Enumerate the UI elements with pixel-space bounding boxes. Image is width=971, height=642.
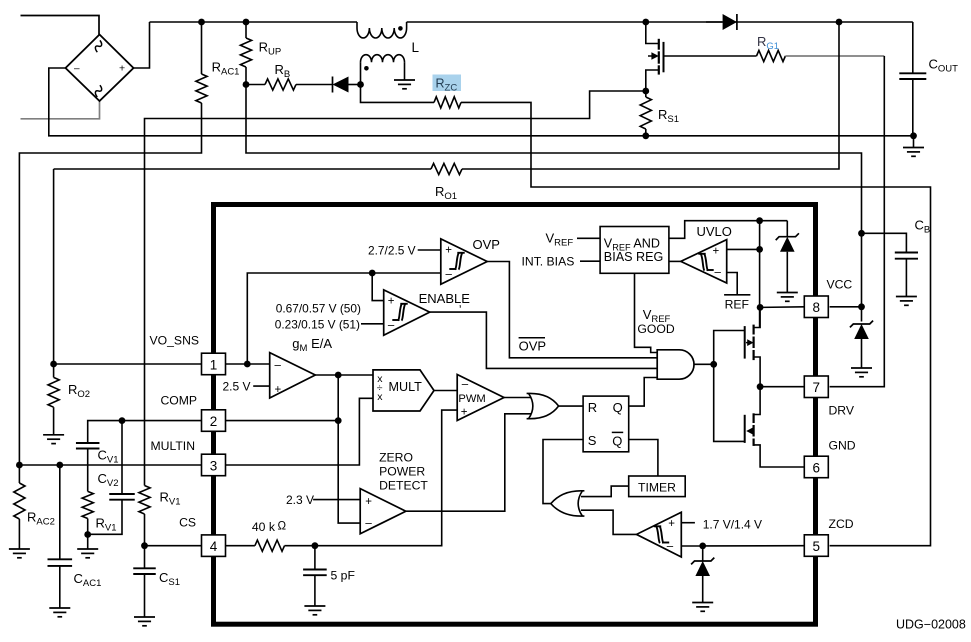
ground (CAC1): [49, 608, 70, 617]
svg-text:2.3 V: 2.3 V: [286, 493, 314, 507]
svg-text:ZCD: ZCD: [829, 517, 854, 531]
IC boundary UCC38050: [214, 205, 816, 625]
svg-text:+: +: [445, 245, 452, 257]
svg-text:TIMER: TIMER: [638, 481, 676, 495]
svg-text:–: –: [715, 267, 722, 279]
label ZCD: [829, 517, 854, 531]
resistor RAC2: [14, 465, 25, 549]
wire pin2 internal: [226, 417, 361, 523]
wire pin3 to MULT: [226, 398, 374, 465]
wire current sense to CS filter: [145, 91, 646, 486]
node RS1 ground: [642, 132, 649, 139]
wire ZCD comp output: [581, 510, 637, 534]
bridge rectifier BR1: [66, 35, 134, 102]
svg-text:–: –: [462, 379, 469, 391]
svg-text:5: 5: [813, 539, 821, 554]
op-amp ZERO POWER DETECT: [360, 489, 406, 534]
label OVP: [473, 237, 500, 252]
label CB: [915, 218, 931, 236]
op-amp OVP comparator: [441, 239, 487, 284]
label VO_SNS: [150, 334, 199, 348]
wire bridge positive output: [134, 22, 150, 68]
svg-text:L: L: [412, 40, 420, 55]
resistor RUP: [240, 22, 251, 85]
node Q1 source / sense: [642, 88, 649, 95]
svg-text:VO_SNS: VO_SNS: [150, 334, 199, 348]
label GND: [829, 439, 856, 453]
label RO2: [68, 382, 90, 400]
wire VREF box to VCC rail: [669, 217, 787, 238]
wire MULTIN line: [16, 462, 202, 469]
wire Q to AND: [629, 378, 658, 407]
svg-text:8: 8: [813, 300, 821, 315]
label L: [412, 40, 420, 55]
label RZC (highlighted): [433, 75, 462, 94]
label COUT: [929, 57, 959, 75]
svg-text:3: 3: [210, 458, 218, 473]
svg-text:UVLO: UVLO: [697, 224, 732, 239]
label RV1a: [96, 516, 117, 534]
transistor lower driver FET: [745, 387, 805, 467]
svg-text:–: –: [388, 320, 395, 332]
ground (D3): [692, 603, 713, 612]
label 40 kOhm: [252, 520, 287, 534]
wire OVP output: [487, 262, 657, 358]
capacitor COUT: [899, 22, 926, 139]
ground (COUT): [903, 136, 924, 157]
wire ZPD output: [406, 414, 531, 511]
label DRV: [829, 404, 855, 418]
capacitor CAC1: [48, 465, 73, 608]
wire UVLO minus to REF: [727, 273, 738, 295]
svg-text:+: +: [461, 407, 468, 419]
svg-text:ZERO: ZERO: [379, 451, 413, 465]
block TIMER: [629, 476, 686, 497]
op-amp ZCD comparator: [637, 512, 682, 557]
label 0.23/0.15 V (51): [275, 318, 384, 332]
ground (CB): [896, 297, 917, 306]
svg-text:1: 1: [210, 357, 218, 372]
wire VREF GOOD: [635, 273, 658, 352]
diode D1: [706, 14, 737, 30]
wire ENABLE output: [430, 312, 658, 368]
label RO1: [435, 184, 457, 202]
label VREF input: [546, 230, 601, 248]
node VCC pin8 external: [830, 303, 865, 310]
ground (RO2): [43, 435, 64, 444]
wire RG1 to DRV (gray): [785, 56, 884, 387]
wire VO_SNS to pin1: [54, 363, 202, 365]
resistor 40k: [255, 540, 285, 551]
wire RO1 to VO_SNS: [53, 169, 55, 364]
wire MULT to PWM: [434, 390, 457, 392]
svg-text:+: +: [668, 518, 675, 530]
op-amp ENABLE comparator: [384, 290, 430, 335]
svg-text:OVP: OVP: [519, 339, 546, 354]
wire VCC supply line: [246, 85, 862, 322]
label MULTIN: [151, 439, 195, 453]
wire internal VCC rail: [756, 221, 763, 327]
wire PWM output: [504, 397, 531, 399]
svg-text:0.23/0.15 V (51): 0.23/0.15 V (51): [275, 318, 360, 332]
svg-text:REF: REF: [725, 298, 749, 312]
svg-text:+: +: [275, 384, 282, 396]
wire VO_SNS to OVP/ENABLE inputs: [247, 270, 440, 364]
resistor RAC1: [19, 22, 207, 465]
svg-text:–: –: [275, 360, 282, 372]
svg-text:–: –: [365, 518, 372, 530]
label gM E/A: [292, 336, 332, 354]
wire pin5 internal: [681, 543, 804, 550]
label UDG-02008: [896, 618, 966, 632]
node VCC internal: [757, 304, 805, 311]
capacitor CS1: [133, 546, 156, 617]
resistor RZC: [434, 97, 461, 108]
capacitor 5pF: [303, 546, 327, 606]
pin 6 GND: [804, 456, 828, 478]
wire RZC to ZCD pin5: [461, 102, 931, 545]
wire bridge negative / ground rail: [49, 68, 914, 136]
label CS: [179, 516, 196, 530]
svg-text:PWM: PWM: [458, 393, 485, 405]
wire TIMER to OR2: [581, 486, 629, 497]
label INT. BIAS: [522, 254, 601, 268]
multiplier MULT: [373, 370, 434, 411]
wire rectified line top rail: [150, 19, 913, 26]
ground (D5): [777, 293, 798, 302]
svg-text:7: 7: [813, 380, 821, 395]
svg-text:ENABLE: ENABLE: [419, 291, 471, 306]
op-amp gM E/A: [270, 353, 316, 398]
capacitor CV2: [88, 421, 135, 535]
gate OR2: [551, 491, 585, 516]
svg-text:0.67/0.57 V (50): 0.67/0.57 V (50): [276, 302, 361, 316]
ground (D4): [851, 368, 872, 377]
svg-text:MULTIN: MULTIN: [151, 439, 195, 453]
wire S input: [543, 440, 583, 504]
wire gate rail: [714, 331, 745, 442]
label 1.7 V/1.4 V: [681, 518, 762, 532]
svg-text:40 k: 40 k: [252, 520, 276, 534]
svg-text:x: x: [377, 391, 383, 403]
wire OR1 output: [559, 405, 584, 407]
label ZERO POWER DETECT: [379, 451, 428, 493]
svg-text:1.7 V/1.4 V: 1.7 V/1.4 V: [703, 518, 762, 532]
pin 1 VO_SNS: [202, 353, 226, 375]
svg-text:+: +: [388, 296, 395, 308]
svg-text:COMP: COMP: [160, 394, 197, 408]
svg-text:GOOD: GOOD: [637, 322, 674, 336]
pin 2 COMP: [202, 410, 226, 432]
zener D3 (ZCD clamp): [691, 546, 714, 603]
resistor RO2: [48, 364, 59, 435]
svg-text:–: –: [446, 269, 453, 281]
inductor L (boost winding): [357, 22, 407, 38]
ground (CS1): [134, 617, 155, 626]
label RAC2: [27, 510, 55, 528]
label ENABLE: [419, 291, 471, 310]
wire pin1 to E/A: [226, 361, 270, 368]
label 2.3 V: [286, 493, 360, 507]
wire CS to PWM+: [285, 410, 458, 549]
resistor RV1a: [82, 491, 93, 534]
wire AND output: [694, 361, 717, 368]
zener D4 (VCC clamp): [850, 321, 873, 368]
resistor RV1b: [139, 486, 150, 546]
svg-text:CS: CS: [179, 516, 196, 530]
label OVP bar: [519, 338, 546, 354]
block VREF AND BIAS REG: [600, 227, 669, 274]
ground (5pF): [304, 606, 325, 615]
gate OR1: [527, 393, 559, 418]
label RUP: [259, 40, 282, 58]
label RS1: [658, 107, 679, 125]
label 2.7/2.5 V: [368, 244, 441, 258]
inductor ZCD winding: [361, 55, 405, 85]
resistor RG1: [757, 50, 786, 61]
wire Qbar to TIMER: [629, 440, 658, 477]
pin 8 VCC: [804, 296, 828, 318]
label RG1: [757, 34, 779, 52]
svg-text:+: +: [365, 496, 372, 508]
svg-text:UDG−02008: UDG−02008: [896, 618, 966, 632]
svg-text:,: ,: [459, 296, 462, 310]
wire COMP pin2 network: [88, 417, 202, 443]
resistor RB: [243, 79, 333, 90]
svg-text:2.5 V: 2.5 V: [223, 380, 251, 394]
ground (compensation): [77, 549, 98, 558]
wire AC line input (bottom, gray): [21, 101, 100, 119]
flip-flop RS latch: [583, 396, 629, 452]
label 2.5 V: [223, 380, 270, 394]
label RAC1: [212, 60, 240, 78]
svg-text:–: –: [74, 64, 80, 75]
capacitor CV1: [76, 443, 100, 491]
resistor RO1: [54, 163, 462, 174]
svg-text:Q: Q: [612, 433, 622, 448]
node CS filter: [141, 542, 201, 549]
label VCC: [827, 278, 853, 292]
label 5 pF: [331, 569, 355, 583]
label RB: [275, 62, 291, 80]
svg-text:2: 2: [210, 414, 218, 429]
capacitor CB: [862, 233, 919, 296]
svg-text:Q: Q: [613, 400, 623, 415]
node VO_SNS: [50, 361, 57, 368]
pin 7 DRV: [804, 376, 828, 398]
svg-text:S: S: [588, 433, 597, 448]
wire VOUT to RO1: [462, 22, 839, 169]
wire pin4 internal: [226, 545, 255, 547]
wire AC line input (top): [21, 16, 100, 35]
transistor Q1 (power MOSFET): [646, 22, 757, 91]
node CB junction: [858, 230, 865, 237]
svg-text:VCC: VCC: [827, 278, 853, 292]
svg-text:DETECT: DETECT: [379, 479, 428, 493]
node compensation ground: [84, 531, 91, 549]
svg-text:OVP: OVP: [473, 237, 500, 252]
svg-text:GND: GND: [829, 439, 856, 453]
ground (ZCD winding): [394, 80, 415, 89]
op-amp UVLO comparator: [681, 240, 727, 283]
label CS1: [159, 570, 180, 588]
svg-text:6: 6: [813, 460, 821, 475]
svg-text:5 pF: 5 pF: [331, 569, 355, 583]
svg-text:Ω: Ω: [278, 521, 287, 533]
op-amp PWM comparator: [457, 375, 504, 421]
transistor upper driver FET: [745, 307, 760, 386]
label CAC1: [74, 571, 102, 589]
diode D2: [333, 77, 361, 93]
label UVLO: [697, 224, 732, 239]
gate AND: [657, 350, 694, 379]
svg-text:MULT: MULT: [389, 380, 423, 394]
node winding-diode junction: [357, 81, 364, 88]
svg-text:+: +: [119, 63, 125, 75]
pin 3 MULTIN: [202, 454, 226, 476]
svg-text:+: +: [713, 246, 720, 258]
terminal REF: [724, 295, 750, 312]
wire UVLO plus: [727, 248, 760, 250]
label COMP: [160, 394, 197, 408]
label RV1b: [160, 490, 181, 508]
svg-text:2.7/2.5 V: 2.7/2.5 V: [368, 244, 416, 258]
svg-text:4: 4: [210, 539, 218, 554]
svg-text:BIAS REG: BIAS REG: [604, 250, 664, 264]
wire winding to RZC: [361, 85, 435, 103]
svg-text:INT. BIAS: INT. BIAS: [522, 254, 575, 268]
resistor RS1: [640, 91, 651, 136]
ground (RAC2): [9, 549, 30, 558]
node DRV: [757, 383, 805, 390]
zener D5 (internal): [776, 221, 799, 293]
label CV1: [98, 448, 119, 466]
pin 4 CS: [202, 535, 226, 557]
pin 5 ZCD: [804, 535, 828, 557]
wire UVLO output: [669, 260, 681, 262]
wire E/A output: [315, 372, 373, 421]
label CV2: [98, 471, 119, 489]
svg-text:POWER: POWER: [379, 465, 425, 479]
label 0.67/0.57 V (50): [276, 302, 361, 316]
svg-text:DRV: DRV: [829, 404, 855, 418]
svg-text:R: R: [588, 400, 597, 415]
label VREF GOOD: [637, 307, 674, 336]
